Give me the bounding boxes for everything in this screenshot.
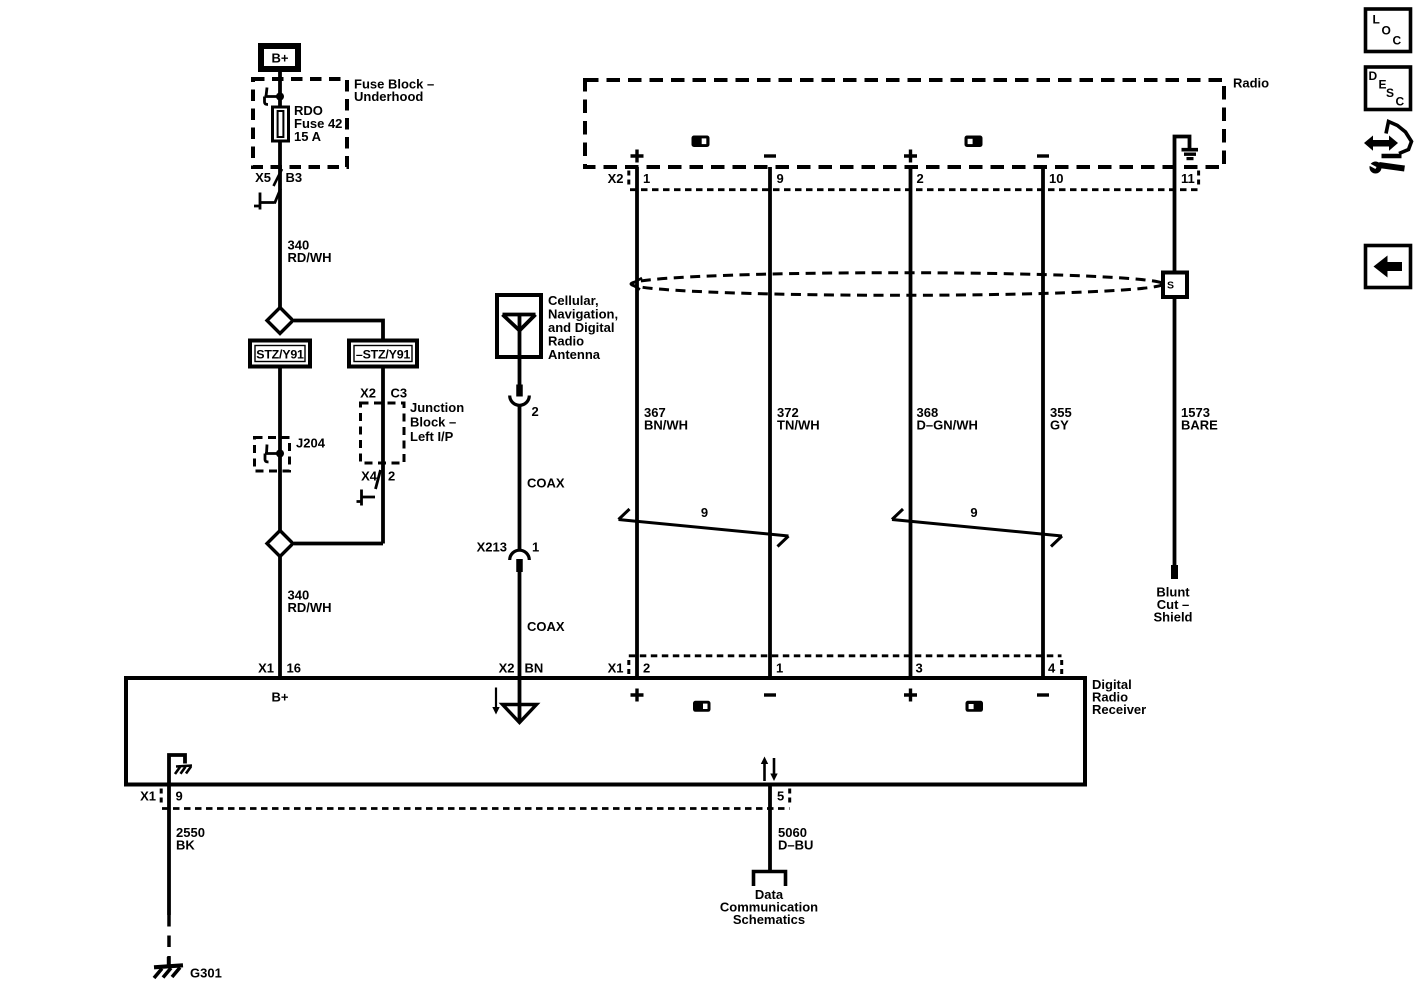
svg-text:5: 5 xyxy=(777,789,784,804)
svg-text:RD/WH: RD/WH xyxy=(288,600,332,615)
radio connector X2 pin labels xyxy=(608,171,1199,187)
sidebar back arrow button xyxy=(1366,246,1411,288)
ground symbol inside radio at pin 11 xyxy=(1175,137,1199,168)
svg-text:Shield: Shield xyxy=(1153,610,1192,625)
connector terminal hook in J204 with junction dot xyxy=(265,445,284,463)
pin labels X5 B3 xyxy=(255,170,302,185)
svg-text:C: C xyxy=(1393,34,1402,48)
polarity marks inside receiver xyxy=(631,689,1050,702)
pin labels X4 2 xyxy=(361,469,395,484)
svg-text:2: 2 xyxy=(643,661,650,676)
fuse value label RDO Fuse 42 15 A xyxy=(294,103,342,144)
svg-text:2: 2 xyxy=(532,404,539,419)
svg-text:D–GN/WH: D–GN/WH xyxy=(917,418,978,433)
wire radio pin 11 shield drain 1573 BARE xyxy=(1173,167,1177,566)
SD media icon inside radio xyxy=(692,136,710,148)
twisted pair arrow with twist count 9 (SD pair) xyxy=(619,505,789,547)
svg-text:X2: X2 xyxy=(360,386,376,401)
svg-text:3: 3 xyxy=(916,661,923,676)
wire label 355 GY xyxy=(1050,405,1072,433)
internal ground symbol at receiver pin 9 xyxy=(169,755,192,784)
svg-text:COAX: COAX xyxy=(527,476,565,491)
pin labels X2 BN at receiver xyxy=(499,661,544,676)
label Cellular Navigation and Digital Radio Antenna xyxy=(548,293,618,362)
sidebar wire-routing tool icon xyxy=(1364,122,1412,174)
wire STZ/Y91 down to lower diamond xyxy=(278,367,282,532)
svg-text:4: 4 xyxy=(1048,661,1056,676)
label Fuse Block - Underhood xyxy=(354,77,434,105)
coax inline connector pin 2 (male stub + socket arc) xyxy=(510,385,530,406)
svg-text:Left I/P: Left I/P xyxy=(410,429,454,444)
svg-text:11: 11 xyxy=(1181,171,1195,186)
sidebar DESC button xyxy=(1366,67,1411,110)
fuse block underhood dashed box xyxy=(253,79,347,167)
coax wire connector 2 to X213 xyxy=(518,406,522,551)
svg-text:Antenna: Antenna xyxy=(548,347,601,362)
svg-text:B+: B+ xyxy=(272,690,289,705)
svg-text:1: 1 xyxy=(532,540,539,555)
wire -STZ/Y91 down through junction block xyxy=(381,367,385,544)
wire label 1573 BARE xyxy=(1181,405,1218,433)
svg-text:B+: B+ xyxy=(272,51,289,66)
svg-text:2: 2 xyxy=(388,469,395,484)
wire label 340 RD/WH (lower) xyxy=(288,588,332,616)
coax wire antenna to connector 2 xyxy=(518,357,522,396)
connector terminal hook at fuse feed with junction dot xyxy=(265,88,285,105)
CB media icon inside radio xyxy=(965,136,983,148)
svg-text:10: 10 xyxy=(1049,171,1063,186)
receiver connector X1 top pin labels xyxy=(608,660,1062,676)
splice diamond node (lower) xyxy=(267,531,293,557)
svg-text:–STZ/Y91: –STZ/Y91 xyxy=(356,348,410,362)
shield S box on drain wire xyxy=(1163,273,1187,298)
svg-text:2: 2 xyxy=(917,171,924,186)
sidebar LOC button xyxy=(1366,9,1411,52)
svg-text:BARE: BARE xyxy=(1181,418,1218,433)
svg-text:X1: X1 xyxy=(608,661,624,676)
svg-text:S: S xyxy=(1167,280,1174,292)
wire branch rejoin at lower diamond xyxy=(294,542,383,546)
CB media icon inside receiver xyxy=(966,701,984,712)
receiver bottom pin labels X1 9 and 5 xyxy=(140,789,790,804)
antenna component box xyxy=(497,295,541,357)
svg-text:B3: B3 xyxy=(286,170,303,185)
svg-text:9: 9 xyxy=(176,789,183,804)
receiver connector X1 dashed line (top) xyxy=(629,654,1062,657)
svg-text:X1: X1 xyxy=(258,661,274,676)
svg-text:L: L xyxy=(1373,13,1380,27)
fuse block detail box -STZ/Y91 xyxy=(349,341,417,367)
serial data arrows inside receiver at pin 5 xyxy=(761,757,778,782)
twisted pair arrow with twist count 9 (CB pair) xyxy=(892,505,1062,547)
svg-text:O: O xyxy=(1382,24,1391,38)
svg-text:G301: G301 xyxy=(190,966,222,981)
svg-text:X1: X1 xyxy=(140,789,156,804)
radio connector X2 dashed line xyxy=(630,188,1199,191)
pin labels X1 16 xyxy=(258,661,301,676)
svg-text:X2: X2 xyxy=(608,171,624,186)
blunt cut shield termination stub xyxy=(1171,565,1178,579)
SD media icon inside receiver xyxy=(693,701,711,712)
pin labels X213 1 xyxy=(477,540,540,555)
antenna input symbol inside receiver (arrow + triangle) xyxy=(492,678,536,723)
svg-text:1: 1 xyxy=(776,661,783,676)
wire radio pin 1 to receiver pin 2 (SD+) xyxy=(635,167,639,678)
label Data Communication Schematics xyxy=(720,887,818,927)
svg-text:9: 9 xyxy=(777,171,784,186)
wire label 367 BN/WH xyxy=(644,405,688,433)
coax wire X213 to receiver xyxy=(518,572,522,678)
svg-text:BN/WH: BN/WH xyxy=(644,418,688,433)
svg-text:STZ/Y91: STZ/Y91 xyxy=(256,348,304,362)
svg-text:X5: X5 xyxy=(255,170,271,185)
battery feed B+ terminal box xyxy=(261,46,298,69)
antenna symbol inside box xyxy=(503,315,536,358)
wire radio pin 2 to receiver pin 3 (CB+) xyxy=(909,167,913,678)
wire label 5060 D-BU xyxy=(778,825,813,853)
fuse block detail box STZ/Y91 xyxy=(250,341,310,367)
fuse RDO Fuse 42 15A symbol xyxy=(273,107,289,141)
svg-text:COAX: COAX xyxy=(527,619,565,634)
label Junction Block - Left I/P xyxy=(410,400,464,444)
svg-text:J204: J204 xyxy=(296,436,326,451)
label Digital Radio Receiver xyxy=(1092,677,1146,717)
coax inline connector X213 pin 1 (socket arc + male stub) xyxy=(510,550,530,572)
svg-text:TN/WH: TN/WH xyxy=(777,418,820,433)
svg-text:S: S xyxy=(1386,86,1394,100)
off-page reference bracket to data schematics xyxy=(754,872,786,887)
receiver bottom connector X1 dashed line xyxy=(162,807,790,810)
svg-text:X213: X213 xyxy=(477,540,507,555)
svg-text:GY: GY xyxy=(1050,418,1069,433)
dashed continuation of ground wire xyxy=(167,915,171,957)
wire diamond to -STZ/Y91 branch xyxy=(294,321,383,342)
label Blunt Cut - Shield xyxy=(1153,585,1192,625)
radio dashed component box xyxy=(585,80,1224,167)
twisted/shielded cable dashed ellipse xyxy=(631,273,1163,296)
svg-text:C3: C3 xyxy=(391,386,408,401)
svg-text:RD/WH: RD/WH xyxy=(288,250,332,265)
svg-text:9: 9 xyxy=(970,505,977,520)
svg-text:BK: BK xyxy=(176,838,195,853)
ground wire 2550 BK from pin 9 xyxy=(167,785,171,916)
wire label 372 TN/WH xyxy=(777,405,820,433)
svg-text:16: 16 xyxy=(287,661,301,676)
svg-text:BN: BN xyxy=(525,661,544,676)
splice pack J204 dashed box xyxy=(255,438,290,472)
svg-text:X4: X4 xyxy=(361,469,378,484)
wire label 2550 BK xyxy=(176,825,205,853)
svg-text:Junction: Junction xyxy=(410,400,464,415)
connector terminal hook below X5/B3 xyxy=(254,189,281,210)
wire B+ to diamond junction xyxy=(278,72,282,309)
inline connector slash at X5/B3 xyxy=(274,169,283,186)
svg-text:D–BU: D–BU xyxy=(778,838,813,853)
svg-text:9: 9 xyxy=(701,505,708,520)
wire radio pin 10 to receiver pin 4 (CB-) xyxy=(1041,167,1045,678)
digital radio receiver box xyxy=(126,678,1085,785)
svg-text:Radio: Radio xyxy=(1233,76,1269,91)
inline connector slash and hook at X4/2 xyxy=(357,470,381,506)
junction block left I/P dashed box xyxy=(361,403,405,463)
splice diamond node (upper) xyxy=(267,308,293,334)
wire label 368 D-GN/WH xyxy=(917,405,978,433)
svg-text:Receiver: Receiver xyxy=(1092,702,1146,717)
ground symbol G301 xyxy=(154,957,183,978)
svg-text:15 A: 15 A xyxy=(294,129,322,144)
svg-text:D: D xyxy=(1369,69,1378,83)
wire radio pin 9 to receiver pin 1 (SD-) xyxy=(768,167,772,678)
svg-text:C: C xyxy=(1396,95,1405,109)
pin labels X2 C3 xyxy=(360,386,407,401)
svg-text:Schematics: Schematics xyxy=(733,912,805,927)
wire label 340 RD/WH (upper) xyxy=(288,238,332,266)
svg-text:Underhood: Underhood xyxy=(354,89,423,104)
shield pointer arrow at ellipse left vertex xyxy=(631,278,642,290)
svg-text:Block –: Block – xyxy=(410,415,456,430)
serial data wire 5060 D-BU from pin 5 xyxy=(768,785,772,872)
svg-text:X2: X2 xyxy=(499,661,515,676)
polarity marks inside radio xyxy=(631,150,1050,163)
wire lower diamond to receiver xyxy=(278,557,282,679)
svg-text:1: 1 xyxy=(643,171,650,186)
